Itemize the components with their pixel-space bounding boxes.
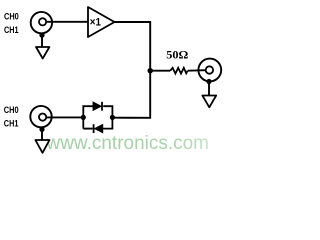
label CH1 (bottom input) xyxy=(4,117,19,128)
wire buffer output to node A (top run) xyxy=(115,22,151,71)
wire resistor R1 to J2 xyxy=(188,69,206,72)
watermark www.cntronics.com xyxy=(46,132,209,154)
ground (bottom left) xyxy=(35,140,49,153)
wire limiter to node A trunk xyxy=(112,117,150,119)
junction dot on J3 shield xyxy=(39,127,44,132)
resistor R1 50 ohm xyxy=(170,68,187,74)
ground (right) xyxy=(202,96,216,108)
wire J3 shield to ground xyxy=(41,129,43,140)
wire J1 shield to ground xyxy=(41,35,43,47)
svg-text:CH0: CH0 xyxy=(4,104,19,115)
wire limiter loop (box) xyxy=(83,106,112,128)
ground (top left) xyxy=(36,47,49,59)
op-amp buffer U1 x1 xyxy=(88,7,115,37)
svg-text:50Ω: 50Ω xyxy=(166,47,188,61)
connector J3 BNC (bottom left CH0/CH1 source) xyxy=(30,106,51,127)
wire J1 to buffer input xyxy=(47,21,89,23)
wire J3 to diode limiter xyxy=(47,116,84,118)
connector J1 BNC (top left CH0/CH1 source) xyxy=(31,12,52,33)
svg-text:CH0: CH0 xyxy=(4,10,19,21)
junction dot on J1 shield xyxy=(39,33,44,38)
label CH0 (bottom input) xyxy=(4,104,19,115)
wire J2 shield to ground xyxy=(208,82,210,96)
diode D1 (top, anode left) xyxy=(93,102,102,111)
node A junction dot xyxy=(148,68,153,73)
svg-text:www.cntronics.com: www.cntronics.com xyxy=(46,132,209,154)
junction dot on J2 shield xyxy=(206,79,211,84)
wire node A to resistor R1 xyxy=(150,70,170,72)
label 50 ohm xyxy=(166,47,188,61)
diode D2 (bottom, anode right) xyxy=(94,124,103,133)
node B junction dot (limiter left) xyxy=(81,115,86,120)
svg-text:CH1: CH1 xyxy=(4,24,19,35)
node C junction dot (limiter right) xyxy=(110,115,115,120)
label CH1 (top input) xyxy=(4,24,19,35)
connector J2 BNC (output, right) xyxy=(198,59,221,82)
svg-text:×1: ×1 xyxy=(90,17,101,29)
svg-text:CH1: CH1 xyxy=(4,117,19,128)
label CH0 (top input) xyxy=(4,10,19,21)
wire node A down to diode limiter run xyxy=(149,71,151,119)
